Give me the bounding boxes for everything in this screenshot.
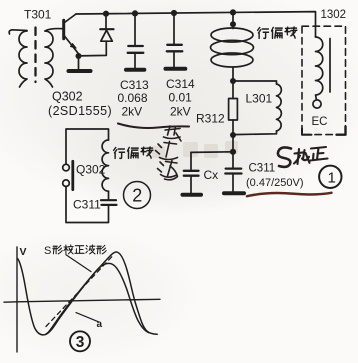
node on rail: diode: [103, 11, 109, 17]
svg-text:R312: R312: [196, 112, 225, 126]
switch terminals Q302 (inset): [63, 164, 70, 171]
capacitor C311 (main): [232, 152, 234, 168]
leader from waveform label: [66, 255, 91, 272]
handwritten swoosh under 2kV labels: [118, 124, 189, 129]
ground (C311 main): [224, 191, 244, 195]
transformer T301 primary winding: [19, 31, 27, 87]
circled 1: [319, 166, 341, 188]
svg-text:Cx: Cx: [204, 168, 219, 182]
handwritten char (annotation) 2: [156, 142, 178, 160]
waveform graph: V axis: [16, 247, 18, 352]
waveform graph: time axis: [4, 299, 160, 302]
wire: top-left lead of T301 primary: [9, 30, 27, 34]
node on rail: C313: [132, 10, 138, 16]
svg-text:C314: C314: [166, 77, 195, 91]
node: emitter junction: [76, 53, 82, 59]
ground (C314): [166, 67, 186, 71]
faint watermark: [152, 141, 238, 158]
node: R312/L301 top junction: [230, 78, 236, 84]
damper diode: [105, 14, 107, 29]
svg-text:0.01: 0.01: [169, 91, 193, 105]
capacitor C311 (inset): [101, 199, 116, 201]
wire: mid rail: [191, 151, 233, 154]
transformer T301 secondary winding: [45, 31, 53, 87]
svg-text:C311: C311: [249, 163, 276, 175]
waveform: dashed sawtooth reference: [46, 257, 112, 327]
switch bar: [71, 161, 74, 189]
inset loop (equivalent circuit 2): [66, 129, 109, 164]
core line (1302): [329, 39, 331, 93]
svg-text:0.068: 0.068: [118, 91, 148, 105]
label 行偏转 (inset yoke): [114, 147, 153, 158]
inductor: inset yoke coil: [102, 140, 108, 191]
circled 2: [124, 182, 151, 209]
handwritten red underline (0.47/250V): [247, 193, 332, 196]
enclosure corner accents: [337, 127, 346, 135]
ground (Cx): [183, 193, 202, 197]
svg-text:(2SD1555): (2SD1555): [48, 104, 112, 118]
svg-text:S: S: [44, 245, 51, 257]
transistor Q302: [62, 20, 65, 38]
node: mid-rail junction: [230, 149, 236, 155]
svg-text:2kV: 2kV: [170, 105, 191, 119]
label 形校正波形 (waveform caption): [53, 245, 106, 254]
svg-text:C313: C313: [120, 78, 149, 92]
wire: base lead: [45, 29, 63, 31]
inductor: horizontal deflection yoke coil: [211, 28, 253, 42]
inductor L301 (parallel branch): [233, 81, 277, 84]
dashed enclosure 1302: [302, 26, 346, 134]
leader to a: [76, 313, 99, 322]
svg-text:Q302: Q302: [52, 90, 83, 104]
node on rail: C314: [171, 10, 177, 16]
node: R312/L301 bottom junction: [230, 132, 236, 138]
svg-text:2kV: 2kV: [122, 105, 143, 119]
svg-text:T301: T301: [24, 8, 52, 22]
svg-text:1: 1: [328, 170, 336, 187]
svg-text:3: 3: [76, 334, 85, 351]
wire: emitter to ground: [78, 56, 80, 70]
svg-text:EC: EC: [312, 116, 328, 128]
handwritten char 校: [294, 149, 310, 164]
capacitor C314: [173, 13, 175, 44]
handwritten annotations: [118, 124, 328, 180]
handwritten S (S correction): [278, 147, 291, 166]
svg-text:C311: C311: [73, 198, 101, 212]
svg-text:Q302: Q302: [76, 163, 106, 177]
wire: down to mid rail: [232, 135, 234, 152]
transformer T301 core: [34, 28, 36, 83]
capacitor Cx: [190, 152, 192, 170]
label 行偏转 (main yoke): [258, 27, 297, 38]
ground (C313): [126, 68, 144, 72]
svg-text:a: a: [97, 319, 103, 330]
node: yoke top terminal: [230, 21, 236, 27]
capacitor C313: [134, 13, 136, 45]
svg-text:1302: 1302: [321, 9, 347, 21]
resistor R312: [232, 81, 234, 99]
handwritten char 正: [310, 147, 328, 161]
handwritten char (annotation) 3: [158, 161, 178, 180]
svg-text:V: V: [20, 246, 27, 258]
ground (Q302 emitter): [69, 69, 91, 73]
wire: top rail: [76, 12, 316, 37]
inductor inside 1302: [316, 37, 323, 100]
handwritten char (annotation) 1: [164, 126, 182, 141]
waveform: inner S-curve: [46, 263, 149, 334]
circled 3: [70, 331, 90, 351]
svg-text:(0.47/250V): (0.47/250V): [246, 177, 303, 189]
node on rail: yoke branch: [230, 9, 236, 15]
terminal circle (EC): [313, 100, 321, 108]
svg-text:L301: L301: [246, 92, 273, 106]
waveform: outer S-curve: [18, 252, 158, 335]
svg-text:2: 2: [132, 186, 142, 206]
